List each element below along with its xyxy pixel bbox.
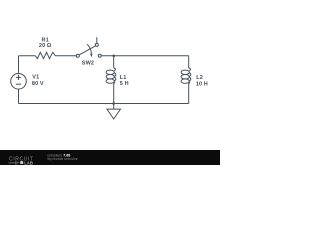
- svg-text:10 H: 10 H: [196, 81, 208, 87]
- svg-text:20 Ω: 20 Ω: [39, 43, 52, 49]
- svg-text:LAB: LAB: [24, 160, 33, 165]
- svg-text:80 V: 80 V: [32, 81, 44, 87]
- svg-text:L1: L1: [120, 75, 127, 81]
- svg-text:http://circuitlab.com/cnv3rse: http://circuitlab.com/cnv3rse: [47, 157, 78, 161]
- svg-text:SW2: SW2: [82, 61, 94, 67]
- svg-text:5 H: 5 H: [120, 81, 129, 87]
- svg-text:L2: L2: [196, 75, 203, 81]
- svg-text:V1: V1: [32, 75, 39, 81]
